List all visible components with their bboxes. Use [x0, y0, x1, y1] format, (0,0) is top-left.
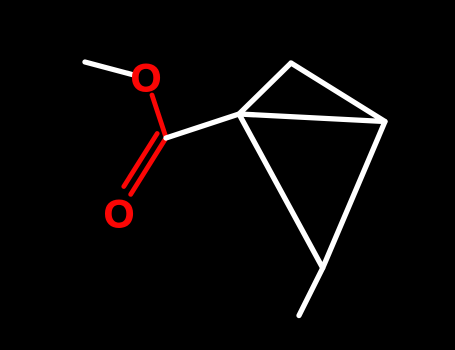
bond C=O carbonyl double bond line 1	[131, 140, 165, 195]
svg-text:O: O	[131, 57, 161, 100]
bond O-C ester single bond	[152, 95, 166, 136]
bond C2-C3 (top bridge CH2 to bridgehead C3)	[291, 63, 385, 122]
bond C1-C3 central bicyclobutane bond	[239, 114, 385, 122]
bond CH3-O (methyl to ester oxygen)	[85, 62, 132, 75]
bond C3-C4 (bridgehead to bottom bridge CH)	[323, 122, 385, 269]
bond C1-C4 (bridgehead to bottom bridge CH)	[239, 114, 323, 268]
bond C-C1 (ester carbon to bridgehead C1)	[166, 114, 239, 138]
bond C=O carbonyl double bond line 2	[124, 134, 157, 187]
svg-text:O: O	[104, 193, 134, 236]
bond C4-CH3 methyl substituent	[299, 268, 323, 316]
bond C1-C2 (bridgehead to top bridge CH2)	[239, 63, 291, 114]
